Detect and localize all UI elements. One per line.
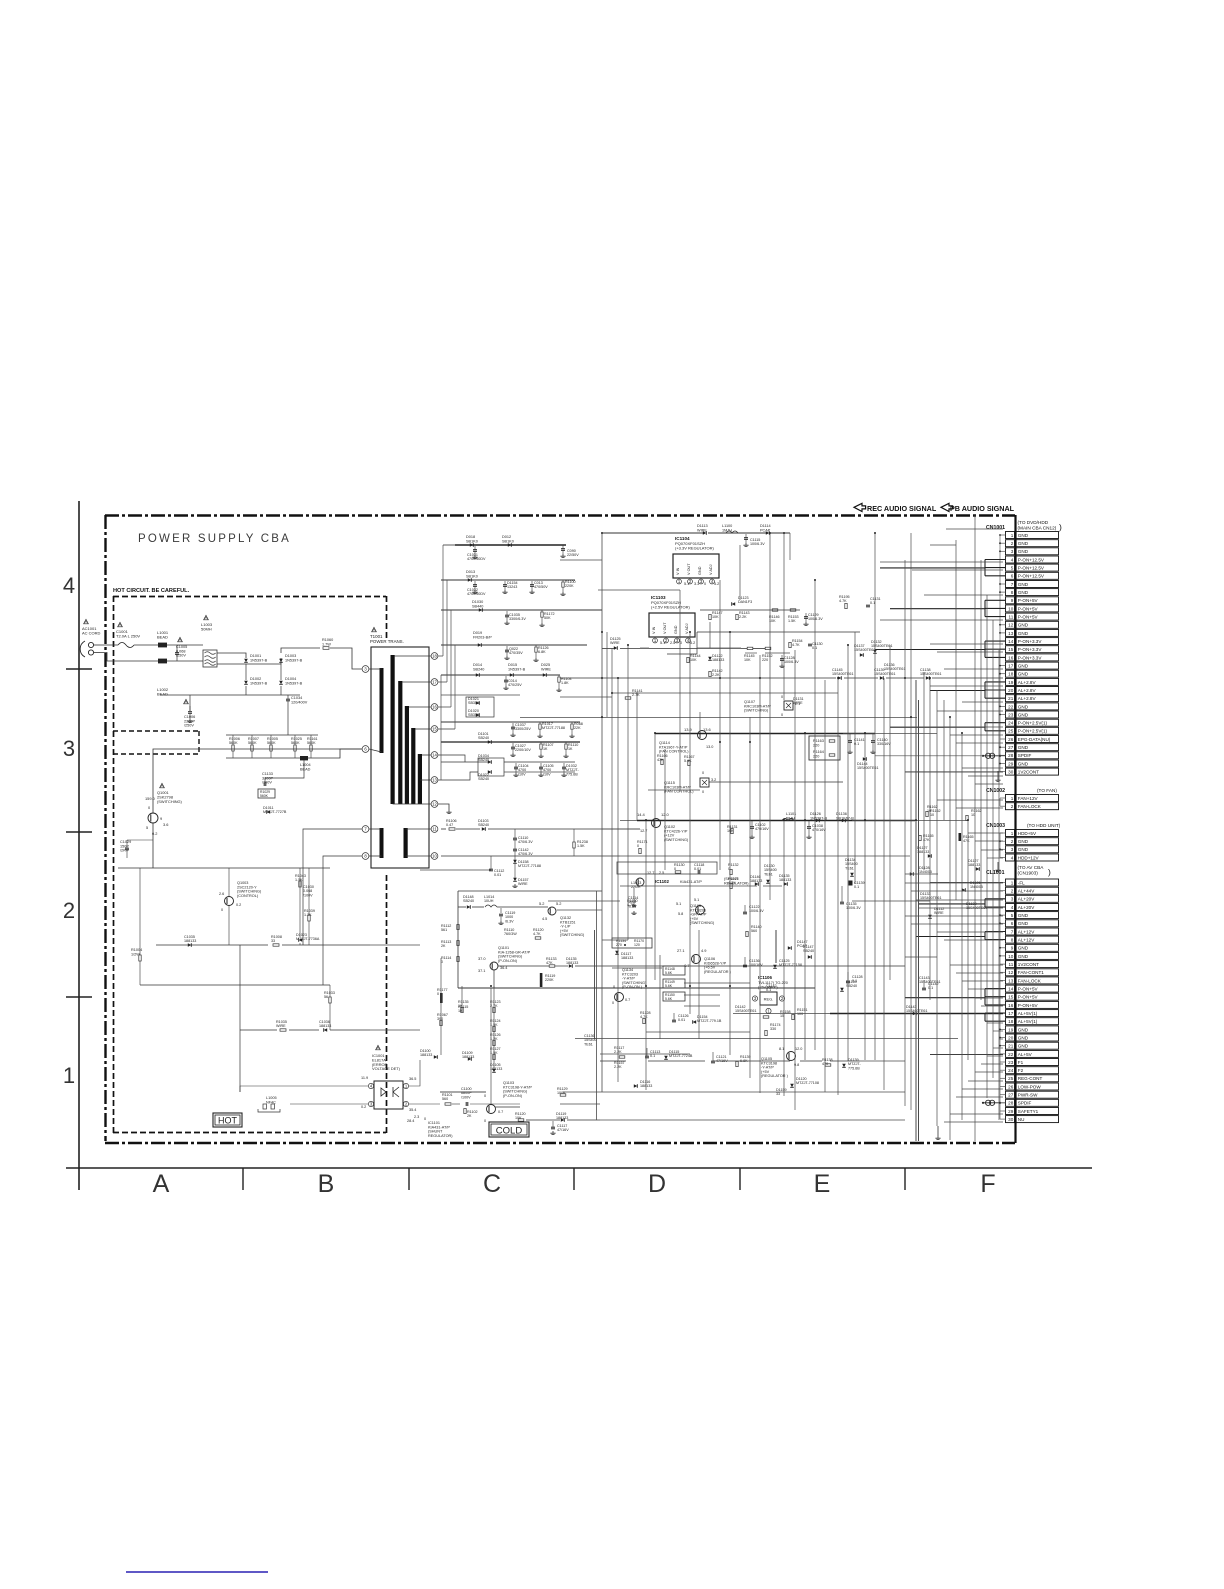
- R1033 56 resistor: [329, 997, 331, 1003]
- connector CN1001 supply feed bracket pins 19-21: [984, 682, 986, 698]
- C1130 0.1 cap: [808, 643, 812, 645]
- HOT circuit dashed box left: [113, 596, 115, 1133]
- connector CN1003 ground symbol: [997, 862, 999, 868]
- wire: [918, 700, 920, 1141]
- wire: [636, 692, 638, 820]
- svg-text:GND: GND: [674, 625, 678, 634]
- wire: [596, 891, 598, 1120]
- connector CN1002 ground rail: [999, 798, 1001, 806]
- main dash-dot border top: [105, 514, 1015, 516]
- wire Q1001 source down: [152, 823, 154, 868]
- R1106 0.47 resistor: [449, 828, 455, 830]
- wire: [627, 645, 629, 940]
- group box around IC1102 input net: [617, 862, 717, 874]
- svg-text:FAN-CONT1: FAN-CONT1: [1018, 970, 1044, 975]
- svg-text:2: 2: [1011, 804, 1014, 809]
- wire IC1001 pin3 to L1005: [290, 1103, 368, 1105]
- C090 22/50V cap: [562, 545, 564, 549]
- svg-text:17: 17: [1008, 664, 1014, 669]
- PB AUDIO SIGNAL arrow label: [941, 503, 953, 511]
- main dash-dot border bottom: [105, 1142, 1015, 1144]
- svg-text:13.9: 13.9: [684, 727, 693, 732]
- D1157 WIRE: [514, 864, 516, 878]
- svg-text:D1030SB440: D1030SB440: [472, 600, 483, 608]
- wire choke to bridge bottom: [217, 658, 281, 664]
- connector CN1003 pin 3 GND: [1006, 846, 1015, 853]
- svg-text:25: 25: [1008, 729, 1014, 734]
- svg-text:E: E: [814, 1170, 831, 1198]
- C014 470/25V: [505, 676, 507, 680]
- svg-text:C: C: [483, 1170, 501, 1198]
- svg-text:P-ON+2.5V(1): P-ON+2.5V(1): [1018, 729, 1048, 734]
- wire: [504, 771, 575, 773]
- svg-text:11.9: 11.9: [361, 1076, 368, 1080]
- svg-text:19: 19: [1008, 680, 1014, 685]
- svg-text:0: 0: [704, 582, 706, 586]
- wire transformer pin 8 return: [323, 856, 362, 985]
- wire: [454, 645, 456, 729]
- svg-text:D025WIRE: D025WIRE: [541, 663, 551, 671]
- R1153 1.5K: [790, 609, 796, 611]
- row 6 wire: C1037 / R1017 / R068: [441, 721, 580, 723]
- svg-text:EPG-DATA(NU): EPG-DATA(NU): [1018, 737, 1051, 742]
- wire pin6 to primary circuit: [318, 749, 362, 758]
- svg-text:18: 18: [1008, 672, 1014, 677]
- wire: [968, 988, 1003, 990]
- wire: [974, 515, 976, 1141]
- wire C1029 rail: [127, 839, 153, 841]
- wire: [975, 1071, 1003, 1073]
- ruler tick: [739, 1168, 741, 1190]
- HOT circuit dashed box right / isolation barrier: [386, 596, 388, 640]
- ruler tick row 4/3: [66, 668, 92, 670]
- svg-text:D1021SB350: D1021SB350: [468, 697, 479, 705]
- svg-text:28.4: 28.4: [407, 1119, 414, 1123]
- wire: [1000, 755, 1006, 757]
- R1100 220K: [562, 580, 564, 582]
- wire: [981, 1005, 1003, 1007]
- supply feed wire to CN1001 pins 4-6: [880, 567, 985, 569]
- svg-text:IC1102: IC1102: [655, 879, 669, 884]
- svg-text:3: 3: [1011, 897, 1014, 902]
- wire: [905, 882, 1003, 884]
- connector CL1001 pin 16 P-ON+5V: [1006, 1001, 1015, 1008]
- connector CL1001 supply feed bracket pins 7-8: [984, 932, 986, 940]
- wire: [824, 680, 826, 1092]
- connector CN1001 pin 20 AL+2.8V: [1006, 687, 1015, 694]
- svg-text:V OUT: V OUT: [687, 563, 691, 575]
- svg-text:3.6: 3.6: [163, 822, 168, 827]
- supply feed wire to CN1001 pins 19-21: [930, 690, 985, 692]
- svg-text:13: 13: [432, 778, 437, 783]
- wire Q1115 output: [709, 781, 843, 783]
- wire: [962, 767, 1003, 769]
- wire: [847, 645, 849, 1061]
- wire: [937, 799, 1003, 801]
- wire: [600, 1053, 690, 1055]
- svg-text:F2: F2: [1018, 1068, 1024, 1073]
- wire: [783, 533, 785, 700]
- wire: [602, 939, 628, 941]
- wire: [1000, 1102, 1006, 1104]
- wire: [441, 694, 520, 696]
- wire: [949, 717, 951, 1140]
- wire Q1101 to Q1103 column x491: [490, 988, 492, 1104]
- svg-text:AL+20V: AL+20V: [1018, 897, 1035, 902]
- COLD label box: [489, 1122, 529, 1137]
- transformer pin 17: [431, 679, 438, 686]
- svg-text:REC AUDIO SIGNAL: REC AUDIO SIGNAL: [867, 504, 937, 513]
- svg-text:AL+5V(1): AL+5V(1): [1018, 1011, 1038, 1016]
- C1145 15S400TE61 diode: [838, 676, 842, 680]
- svg-text:): ): [1059, 522, 1062, 532]
- wire L1001 to choke: [167, 644, 203, 646]
- svg-text:SPDIF: SPDIF: [1018, 753, 1032, 758]
- C1102 470/16V cap: [751, 821, 753, 826]
- wire: [981, 849, 1003, 851]
- svg-text:36.4: 36.4: [500, 966, 507, 970]
- wire: [654, 733, 656, 980]
- R1150 5.6K boxed resistor: [663, 992, 685, 1001]
- svg-text:3: 3: [1011, 847, 1014, 852]
- left ruler line: [78, 501, 80, 1190]
- connector CN1001 pin 11 P-ON+5V: [1006, 613, 1015, 620]
- svg-text:1V2CONT: 1V2CONT: [1018, 962, 1039, 967]
- transformer T1001 secondary winding bars (staircase): [391, 655, 395, 804]
- R1101 560 resistor: [445, 1103, 451, 1105]
- svg-text:GND: GND: [1018, 913, 1029, 918]
- svg-text:AL+5V(1): AL+5V(1): [1018, 1019, 1038, 1024]
- wire upper net y891: [458, 890, 602, 892]
- svg-text:CL1001: CL1001: [986, 870, 1005, 876]
- wire: [930, 643, 1003, 645]
- wire top 3.3V feed: [602, 532, 703, 534]
- wire: [745, 652, 757, 654]
- wire Q1003 collector up: [228, 868, 230, 897]
- svg-text:7: 7: [1011, 929, 1014, 934]
- wire: [905, 873, 938, 875]
- transformer pin 18: [431, 653, 438, 660]
- svg-text:P-ON+12.5V: P-ON+12.5V: [1018, 566, 1045, 571]
- wire: [699, 733, 701, 735]
- connector CL1001 pin 8 AL+12V: [1006, 936, 1015, 943]
- svg-text:36.5: 36.5: [409, 1077, 416, 1081]
- L1004 BEAD: [300, 756, 308, 760]
- wire fuse to L1001: [134, 644, 158, 646]
- REC AUDIO SIGNAL arrow label: [854, 503, 866, 511]
- connector CL1001 pin 17 AL+5V(1): [1006, 1010, 1015, 1017]
- svg-text:7: 7: [1011, 582, 1014, 587]
- R1147 10K: [709, 614, 711, 619]
- svg-text:SAFETY1: SAFETY1: [1018, 1109, 1039, 1114]
- svg-text:P-ON+3.3V: P-ON+3.3V: [1018, 639, 1043, 644]
- svg-text:3.3: 3.3: [694, 582, 699, 586]
- wire: [699, 712, 701, 733]
- connector CL1001 pin 7 AL+12V: [1006, 928, 1015, 935]
- svg-text:GND: GND: [698, 566, 702, 575]
- connector CN1001 pin 16 P-ON+3.3V: [1006, 654, 1015, 661]
- D1122 188133: [708, 657, 712, 661]
- wire IC1001 pin4 feedback: [240, 1086, 368, 1092]
- connector CN1001 pin 5 P-ON+12.5V: [1006, 564, 1015, 571]
- regulator IC1104 box: [673, 554, 719, 578]
- svg-text:5.2: 5.2: [556, 901, 561, 906]
- svg-text:REG.: REG.: [764, 997, 774, 1002]
- startup resistor row R1006 R1007 R1005 R1025 R1161: [232, 745, 234, 751]
- wire: [943, 700, 945, 820]
- svg-text:GND: GND: [1018, 946, 1029, 951]
- IC1001 pin 2: [403, 1101, 408, 1106]
- wire: [749, 717, 751, 1078]
- svg-text:20: 20: [1008, 1035, 1014, 1040]
- C1119 1000/6.3V cap: [500, 908, 502, 913]
- ruler tick: [904, 1168, 906, 1190]
- C1129 100/6.3V: [805, 613, 807, 617]
- svg-text:24: 24: [1008, 1068, 1014, 1073]
- wire long bottom net y1039: [575, 1038, 958, 1040]
- wire: [956, 972, 1003, 974]
- R1017 MTZJT-77188: [539, 722, 541, 724]
- svg-text:GND: GND: [1018, 1044, 1029, 1049]
- svg-text:POWER SUPPLY CBA: POWER SUPPLY CBA: [138, 533, 291, 545]
- wire: [679, 590, 681, 790]
- svg-text:5.8: 5.8: [678, 912, 683, 916]
- svg-text:10: 10: [432, 854, 437, 859]
- wire startup resistor bottom rail: [226, 757, 318, 759]
- svg-text:0.2: 0.2: [361, 1105, 366, 1109]
- wire: [664, 749, 666, 870]
- wire: [915, 680, 917, 1141]
- supply feed wire to CN1001 pins 24-25: [890, 726, 985, 728]
- svg-text:1V2CONT: 1V2CONT: [1018, 770, 1039, 775]
- connector CN1001 supply feed bracket pins 9-11: [984, 600, 986, 616]
- svg-text:P-ON+5V: P-ON+5V: [1018, 995, 1039, 1000]
- svg-text:D1101SB240: D1101SB240: [478, 732, 489, 740]
- R1152 220: [765, 647, 771, 649]
- connector CL1001 pin 28 SPDIF: [1006, 1099, 1015, 1106]
- supply feed wire to CN1001 pin 30: [905, 771, 1003, 773]
- svg-text:LOW-POW: LOW-POW: [1018, 1084, 1042, 1089]
- wire: [794, 650, 796, 1110]
- diode D1002 1N5397-B: [244, 681, 248, 685]
- svg-text:30: 30: [1008, 1117, 1014, 1122]
- svg-text:NU: NU: [1018, 1117, 1025, 1122]
- wire: [936, 690, 938, 1126]
- C1029 150P/2KV: [125, 847, 129, 849]
- transformer T1001 lower secondary bar: [404, 828, 408, 858]
- wire: [440, 1091, 486, 1093]
- svg-text:D1125WIRE: D1125WIRE: [610, 637, 621, 645]
- connector CL1001 pin 23 F1: [1006, 1059, 1015, 1066]
- svg-text:0: 0: [484, 1119, 486, 1123]
- svg-text:D1127188133: D1127188133: [968, 859, 980, 867]
- wire: [962, 1088, 1003, 1090]
- L1001 BEAD symbol: [158, 643, 167, 648]
- svg-text:SPDIF: SPDIF: [1018, 1101, 1032, 1106]
- svg-text:0.7: 0.7: [625, 998, 630, 1002]
- IC1106 pin 3: [752, 996, 757, 1001]
- svg-text:(TO HDD UNIT): (TO HDD UNIT): [1027, 823, 1061, 828]
- wire: [709, 622, 711, 648]
- svg-text:21: 21: [1008, 696, 1014, 701]
- svg-text:26: 26: [1008, 737, 1014, 742]
- connector CN1001 pin 19 AL+2.8V: [1006, 678, 1015, 685]
- svg-text:35.4: 35.4: [409, 1108, 416, 1112]
- wire: [442, 545, 444, 656]
- svg-text:1: 1: [63, 1063, 75, 1088]
- svg-text:FAN+12V: FAN+12V: [1018, 796, 1039, 801]
- svg-text:GND: GND: [1018, 549, 1029, 554]
- D1023 MTZJT-7736A zener: [299, 938, 303, 942]
- transformer pin 6: [362, 746, 369, 753]
- D1154 13243 diode: [504, 581, 506, 585]
- transformer T1001 lower primary bar: [380, 828, 384, 858]
- svg-text:GND: GND: [1018, 745, 1029, 750]
- wire: [980, 560, 982, 1000]
- wire: [880, 561, 1003, 563]
- connector CL1001 supply feed bracket pins 14-16: [984, 989, 986, 1005]
- connector CN1003 pin 4 HDD+12V: [1006, 854, 1015, 861]
- regulator IC1104 pin 4: [710, 579, 715, 584]
- svg-text:26: 26: [1008, 1084, 1014, 1089]
- connector CN1001 pin 23 GND: [1006, 711, 1015, 718]
- diode D1004 1N5397-B: [279, 681, 283, 685]
- connector CL1001 pin 15 P-ON+5V: [1006, 993, 1015, 1000]
- svg-text:D1135188133: D1135188133: [779, 874, 791, 882]
- svg-text:HOT CIRCUIT. BE CAREFUL.: HOT CIRCUIT. BE CAREFUL.: [113, 588, 190, 594]
- R1008 33 resistor: [273, 944, 279, 946]
- wire: [709, 781, 710, 783]
- connector CL1001 pin 1 -FL: [1006, 879, 1015, 886]
- wire: [999, 1038, 1003, 1040]
- svg-text:4: 4: [1011, 855, 1014, 860]
- wire: [729, 632, 731, 1055]
- connector CN1001 pin 27 GND: [1006, 744, 1015, 751]
- svg-text:D1146188133: D1146188133: [750, 875, 762, 883]
- svg-text:5.1: 5.1: [676, 902, 681, 906]
- connector CL1001 supply feed bracket pins 17-18: [984, 1013, 986, 1021]
- svg-text:2: 2: [1011, 839, 1014, 844]
- wire: [795, 1091, 905, 1093]
- supply feed wire to CN1001 pins 9-11: [890, 608, 985, 610]
- C1035 188133 diode: [188, 943, 192, 947]
- IC1106 pin 2: [779, 996, 784, 1001]
- wire left rail x458: [457, 891, 459, 988]
- ruler tick row 2/1: [66, 996, 92, 998]
- IC1001 pin 4: [368, 1083, 373, 1088]
- wire: [684, 1005, 720, 1007]
- svg-text:D1148SB240: D1148SB240: [463, 895, 474, 903]
- svg-text:F: F: [980, 1170, 995, 1198]
- transformer pin 13: [431, 777, 438, 784]
- connector CN1001 pin 29 GND: [1006, 760, 1015, 767]
- wire: [987, 1055, 1003, 1057]
- C1141 0.1 cap: [849, 734, 851, 740]
- svg-text:GND: GND: [1018, 921, 1029, 926]
- svg-text:27: 27: [1008, 745, 1014, 750]
- wire: [918, 907, 1003, 909]
- wire: [783, 820, 785, 1096]
- connector CN1001 pin 28 SPDIF: [1006, 752, 1015, 759]
- wire: [612, 967, 662, 969]
- svg-text:P-ON+5V: P-ON+5V: [1018, 987, 1039, 992]
- wire: [440, 675, 442, 780]
- D1103 SB240 diode: [482, 827, 486, 831]
- AC plug symbol: [88, 642, 93, 647]
- wire: [993, 1030, 1003, 1032]
- wire: [967, 820, 969, 1060]
- IC1001 pin 3: [368, 1101, 373, 1106]
- svg-text:10: 10: [1008, 954, 1014, 959]
- wire 3.3V adj net: [697, 631, 860, 633]
- wire: [962, 980, 1003, 982]
- connector CN1001 pin 8 GND: [1006, 589, 1015, 596]
- connector CN1001 ground rail: [999, 535, 1001, 772]
- wire: [600, 1119, 905, 1121]
- connector CL1001 pin 11 1V2CONT: [1006, 961, 1015, 968]
- svg-text:GND: GND: [1018, 672, 1029, 677]
- main dash-dot border left: [104, 515, 106, 1141]
- wire: [944, 668, 1003, 670]
- connector CN1001 supply feed bracket pins 24-25: [984, 723, 986, 731]
- connector CN1001 pin 22 GND: [1006, 703, 1015, 710]
- svg-text:CN1001: CN1001: [986, 525, 1005, 531]
- Q1114 fan control transistor: [698, 731, 707, 740]
- R1167 5.6K: [688, 760, 690, 765]
- wire Q1103 base row: [440, 1091, 486, 1093]
- IC1106 pin 1: [766, 1008, 771, 1013]
- supply feed wire to CL1001 pin 22: [930, 1053, 1003, 1055]
- svg-text:C1035188133: C1035188133: [184, 935, 196, 943]
- D1011 MTZJT-7727B zener: [267, 810, 271, 814]
- connector CL1001 pin 4 AL+20V: [1006, 904, 1015, 911]
- svg-text:GND: GND: [1018, 704, 1029, 709]
- wire: [617, 678, 619, 1082]
- svg-text:23: 23: [1008, 1060, 1014, 1065]
- wire Q1001 drain from transformer pin 6: [153, 749, 362, 813]
- R1144 10K: [687, 657, 689, 662]
- R1142 2.2K: [709, 671, 711, 676]
- ruler tick row 3/2: [66, 831, 92, 833]
- svg-text:2: 2: [63, 898, 75, 923]
- wire: [883, 678, 885, 1090]
- wire: [968, 832, 1003, 834]
- svg-text:AL+5V: AL+5V: [1018, 1052, 1033, 1057]
- wire: [620, 820, 637, 822]
- svg-text:0: 0: [424, 1117, 426, 1121]
- svg-text:5.1: 5.1: [660, 641, 665, 645]
- svg-text:D115413243: D115413243: [507, 581, 518, 589]
- wire: [719, 580, 721, 870]
- wire: [602, 828, 640, 830]
- wire: [370, 1029, 420, 1031]
- svg-text:REG-CONT: REG-CONT: [1018, 1076, 1043, 1081]
- svg-text:GND: GND: [1018, 623, 1029, 628]
- wire: [697, 647, 741, 649]
- connector CN1001 supply feed bracket pins 14-16: [984, 641, 986, 657]
- wire: [854, 632, 856, 884]
- R1035 WIRE jumper: [280, 1029, 286, 1031]
- connector CN1003 pin 1 HDD+5V: [1006, 830, 1015, 837]
- AC1001 AC CORD label: [84, 619, 89, 623]
- svg-text:23: 23: [1008, 712, 1014, 717]
- C1027 2200/10V: [512, 743, 514, 747]
- svg-text:D1022SB240: D1022SB240: [478, 773, 489, 781]
- connector CN1002 pin 2 FAN-LOCK: [1006, 803, 1015, 810]
- svg-text:P-ON+3.3V: P-ON+3.3V: [1018, 655, 1043, 660]
- svg-text:D1135188133: D1135188133: [566, 957, 578, 965]
- R1039 1.2K: [308, 915, 310, 921]
